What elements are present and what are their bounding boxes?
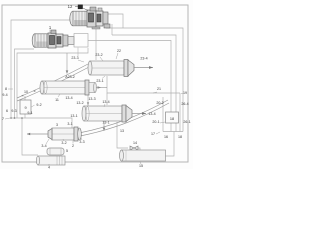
svg-text:19: 19 — [183, 91, 187, 95]
svg-text:18: 18 — [170, 117, 174, 121]
wire: box9 bottom stem — [24, 114, 26, 118]
svg-text:4: 4 — [48, 166, 50, 170]
svg-text:3-2: 3-2 — [61, 141, 66, 145]
svg-text:12: 12 — [68, 4, 73, 9]
svg-text:3-3: 3-3 — [79, 140, 84, 144]
wire: drop to cyl2 — [106, 93, 108, 105]
valve 14 — [130, 146, 138, 150]
pointer from pump1 flange — [77, 48, 79, 57]
wire: loop B to right side — [112, 35, 176, 132]
border frame — [2, 5, 188, 162]
svg-text:9-3: 9-3 — [11, 109, 16, 113]
svg-text:18: 18 — [178, 135, 182, 139]
svg-text:7: 7 — [2, 117, 4, 121]
pump unit 12 — [70, 5, 110, 30]
wire cyl13 bottom drop — [103, 121, 105, 130]
junction dots — [10, 117, 12, 119]
tank 4 — [36, 156, 65, 165]
svg-text:23-2: 23-2 — [95, 53, 102, 57]
wire: tank4 feed — [22, 118, 38, 155]
svg-text:21: 21 — [157, 87, 161, 91]
arrow feed into hose — [66, 53, 68, 72]
svg-text:8: 8 — [5, 87, 7, 91]
svg-text:15: 15 — [139, 164, 143, 168]
svg-text:23-1: 23-1 — [96, 79, 103, 83]
wire: box9 stem — [24, 96, 26, 100]
arrow cyl11 outlet — [89, 83, 95, 93]
svg-text:A23-2: A23-2 — [65, 75, 75, 79]
svg-text:16: 16 — [164, 135, 168, 139]
arrow 23-4 outlet — [134, 67, 153, 69]
hose pair lower — [79, 100, 168, 133]
wire: pump12 outlet right — [108, 14, 123, 28]
svg-text:9-1: 9-1 — [27, 111, 32, 115]
svg-text:3: 3 — [56, 123, 58, 127]
svg-text:13-4: 13-4 — [102, 100, 109, 104]
svg-text:13-3: 13-3 — [88, 97, 95, 101]
hose pair upper (flexible connection) — [17, 64, 88, 98]
svg-text:23-4: 23-4 — [140, 57, 147, 61]
svg-text:14: 14 — [133, 141, 137, 145]
svg-text:9-2: 9-2 — [36, 103, 41, 107]
wire: bottom bus under box18 — [163, 131, 183, 133]
wire: valve14 to tank15 stub — [138, 148, 140, 150]
svg-text:9-4: 9-4 — [2, 93, 7, 97]
wire: pump1 discharge under-run — [17, 48, 88, 118]
wire: loop C to right side — [88, 41, 171, 113]
svg-text:6: 6 — [6, 109, 8, 113]
svg-text:3-1: 3-1 — [67, 122, 72, 126]
cylinder 2 (bottom-left blower) — [48, 127, 81, 141]
wire: pump12 lower outlet drop — [111, 24, 113, 35]
svg-text:11: 11 — [55, 98, 59, 102]
svg-text:23-3: 23-3 — [71, 56, 78, 60]
svg-text:3-4: 3-4 — [41, 144, 46, 148]
svg-text:26-1: 26-1 — [183, 120, 190, 124]
wire: tank15 right riser — [165, 132, 174, 157]
svg-text:13: 13 — [120, 129, 124, 133]
muffler 5 — [47, 148, 64, 155]
svg-text:2: 2 — [72, 144, 74, 148]
box 9 — [20, 100, 31, 114]
wire: right drop from line 21 — [179, 93, 181, 132]
wire: junction row — [11, 118, 72, 128]
cylinder 11 (middle duct) — [40, 80, 89, 95]
pump unit 1 — [32, 30, 88, 48]
svg-text:13-1: 13-1 — [102, 121, 109, 125]
svg-text:5: 5 — [66, 149, 68, 153]
wire: tank15 feed — [117, 122, 128, 148]
svg-text:13-4: 13-4 — [65, 96, 72, 100]
wire: box18 lower legs — [170, 123, 172, 132]
svg-text:9: 9 — [24, 106, 26, 110]
svg-text:20-2: 20-2 — [156, 101, 163, 105]
wire: loop A to right side — [106, 28, 183, 132]
cylinder 23 (pump stage with cone outlet) — [88, 60, 134, 77]
hose tick marks — [21, 95, 24, 97]
wire: cyl11 to cyl2 drop — [87, 95, 89, 106]
cylinder 13 (second row) — [82, 105, 132, 122]
arrow exhaust left — [27, 133, 48, 135]
svg-text:10: 10 — [24, 90, 28, 94]
wire: line 21 — [107, 76, 180, 93]
box 18 — [166, 112, 179, 123]
svg-text:13-4: 13-4 — [148, 112, 155, 116]
wire: pump1 suction — [15, 49, 35, 118]
wire: pump12 drop — [95, 28, 97, 60]
svg-text:13-2: 13-2 — [76, 101, 83, 105]
arrowhead cyl11-cyl2 drop — [87, 102, 89, 105]
wire: inlet loop top — [11, 20, 70, 118]
tank 15 — [120, 150, 166, 161]
svg-text:26-4: 26-4 — [181, 102, 188, 106]
svg-text:13-1: 13-1 — [70, 114, 77, 118]
wire: left drop at node 20-2 — [162, 97, 164, 132]
svg-text:20-1: 20-1 — [152, 120, 159, 124]
svg-text:17: 17 — [151, 132, 155, 136]
svg-text:22: 22 — [117, 49, 121, 53]
arrow 13-4 outlet — [132, 113, 146, 115]
